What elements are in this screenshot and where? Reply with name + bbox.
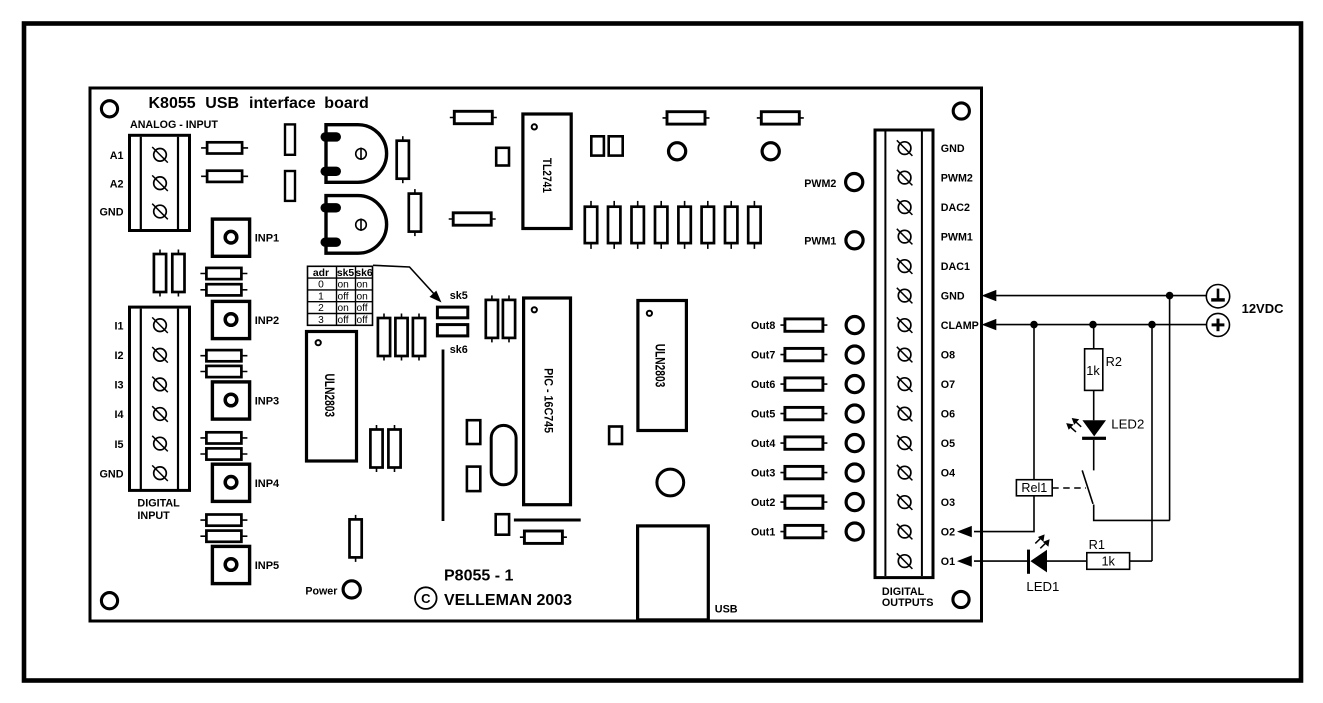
svg-text:O6: O6 xyxy=(941,409,955,421)
screw I1 (digital input) xyxy=(152,317,168,333)
resistor (input network 6) xyxy=(200,448,247,459)
wire LED1 to R1 xyxy=(1047,560,1087,562)
svg-text:1k: 1k xyxy=(1101,554,1115,569)
screw CLAMP (output terminal 7) xyxy=(897,317,913,333)
track line below PIC xyxy=(514,519,581,522)
driver IC ULN2803 (left) xyxy=(307,332,357,462)
capacitor pair right of TL2741 (2) xyxy=(609,136,623,155)
trimmer potentiometer RV1 xyxy=(321,125,387,183)
arrow into O1 terminal xyxy=(957,555,972,566)
LED via Out2 xyxy=(846,494,863,511)
relay contact blade xyxy=(1082,470,1093,504)
svg-text:Out8: Out8 xyxy=(751,320,775,332)
LED1 xyxy=(1027,550,1047,574)
svg-text:sk5: sk5 xyxy=(450,290,468,302)
svg-text:INPUT: INPUT xyxy=(137,510,170,522)
screw PWM2 (output terminal 2) xyxy=(897,170,913,186)
svg-text:Out2: Out2 xyxy=(751,497,775,509)
digital outputs terminal block SK3/SK4 xyxy=(875,130,933,578)
screw I3 (digital input) xyxy=(152,377,168,393)
svg-text:1: 1 xyxy=(318,291,324,302)
resistor (input network 7) xyxy=(200,515,247,526)
mounting hole bottom-right xyxy=(953,591,969,607)
svg-text:LED1: LED1 xyxy=(1026,579,1059,594)
pushbutton INP2 xyxy=(212,301,249,338)
svg-text:GND: GND xyxy=(941,291,965,303)
svg-text:O8: O8 xyxy=(941,350,955,362)
resistor (left of TL2741, bottom) xyxy=(449,213,496,225)
svg-text:O4: O4 xyxy=(941,468,955,480)
plus symbol (12VDC plus) xyxy=(1207,313,1230,336)
svg-text:O7: O7 xyxy=(941,379,955,391)
svg-text:VELLEMAN 2003: VELLEMAN 2003 xyxy=(444,592,572,609)
svg-text:ULN2803: ULN2803 xyxy=(653,344,668,388)
pushbutton INP4 xyxy=(212,464,249,501)
resistor array R8 xyxy=(748,201,760,249)
resistor Out3 xyxy=(780,466,827,478)
svg-text:sk6: sk6 xyxy=(355,268,373,279)
resistor pair below left ULN (2) xyxy=(388,425,400,472)
screw DAC1 (output terminal 5) xyxy=(897,258,913,274)
svg-text:GND: GND xyxy=(100,207,124,219)
resistor (input network 2) xyxy=(200,284,247,295)
svg-text:INP1: INP1 xyxy=(255,233,279,245)
svg-text:0: 0 xyxy=(318,280,324,291)
screw O6 (output terminal 10) xyxy=(897,406,913,422)
screw A2 xyxy=(152,175,168,191)
svg-text:C: C xyxy=(421,591,431,606)
jumper address table xyxy=(308,266,373,326)
resistor pair below analog block 1 xyxy=(154,250,166,297)
resistor Out4 xyxy=(780,437,827,449)
svg-text:3: 3 xyxy=(318,315,324,326)
svg-text:DIGITAL: DIGITAL xyxy=(137,498,180,510)
trimmer potentiometer RV2 xyxy=(321,196,387,254)
screw PWM1 (output terminal 4) xyxy=(897,229,913,245)
junction node R2 branch xyxy=(1089,321,1097,329)
svg-text:ANALOG - INPUT: ANALOG - INPUT xyxy=(130,119,218,131)
capacitor (small rect lower) xyxy=(285,171,295,201)
svg-text:DAC2: DAC2 xyxy=(941,202,970,214)
svg-text:LED2: LED2 xyxy=(1111,416,1144,431)
svg-text:sk6: sk6 xyxy=(450,344,468,356)
copyright symbol xyxy=(415,587,437,609)
svg-text:R2: R2 xyxy=(1106,354,1122,369)
svg-text:A2: A2 xyxy=(110,178,124,190)
LED via Out1 xyxy=(846,523,863,540)
svg-text:CLAMP: CLAMP xyxy=(941,320,979,332)
svg-text:on: on xyxy=(338,280,349,291)
LED via Out8 xyxy=(846,317,863,334)
USB connector xyxy=(638,526,709,620)
mounting hole top-right xyxy=(953,103,969,119)
driver IC ULN2803 (right) xyxy=(638,301,687,431)
svg-text:Out3: Out3 xyxy=(751,467,775,479)
svg-text:Out5: Out5 xyxy=(751,408,775,420)
screw DAC2 (output terminal 3) xyxy=(897,199,913,215)
arrow from table to sk5 xyxy=(373,265,442,302)
resistor array R4 xyxy=(655,201,667,249)
svg-text:Out4: Out4 xyxy=(751,438,775,450)
wire GND branch down xyxy=(1169,296,1171,521)
resistor (below PIC) xyxy=(520,531,567,543)
screw I5 (digital input) xyxy=(152,436,168,452)
capacitor (left of TL2741) xyxy=(496,148,509,166)
svg-text:TL2741: TL2741 xyxy=(540,158,553,193)
svg-text:PWM1: PWM1 xyxy=(941,232,973,244)
resistor pair below analog block 2 xyxy=(172,250,184,297)
resistor Out7 xyxy=(780,348,827,360)
svg-text:OUTPUTS: OUTPUTS xyxy=(882,597,934,609)
svg-text:A1: A1 xyxy=(110,150,124,162)
svg-text:USB: USB xyxy=(205,95,239,112)
svg-text:O1: O1 xyxy=(941,556,955,568)
wire CLAMP to supply plus xyxy=(995,324,1207,326)
junction node on GND wire xyxy=(1166,292,1174,300)
svg-text:Rel1: Rel1 xyxy=(1021,481,1047,495)
LED1 light arrows xyxy=(1035,534,1049,548)
wire plus to R2 xyxy=(1093,325,1095,349)
resistor Out6 xyxy=(780,378,827,390)
svg-text:DAC1: DAC1 xyxy=(941,261,970,273)
junction node R1 branch xyxy=(1148,321,1156,329)
resistor (input network 8) xyxy=(200,531,247,542)
crystal X1 xyxy=(491,425,516,484)
svg-text:off: off xyxy=(338,291,349,302)
resistor array R1 xyxy=(585,201,597,249)
svg-text:I2: I2 xyxy=(114,350,123,362)
junction node Rel1 branch xyxy=(1030,321,1038,329)
svg-text:on: on xyxy=(357,291,368,302)
svg-text:GND: GND xyxy=(100,468,124,480)
svg-text:Out7: Out7 xyxy=(751,349,775,361)
svg-text:INP3: INP3 xyxy=(255,396,279,408)
electrolytic capacitor xyxy=(657,469,684,496)
pushbutton INP5 xyxy=(212,546,249,583)
mounting hole top-left xyxy=(101,101,117,117)
resistor trio near ULN2803 (1) xyxy=(378,314,390,361)
LED2 xyxy=(1082,420,1106,440)
svg-text:O3: O3 xyxy=(941,497,955,509)
svg-text:interface: interface xyxy=(249,95,316,112)
resistor Out2 xyxy=(780,496,827,508)
screw O4 (output terminal 12) xyxy=(897,465,913,481)
svg-text:O2: O2 xyxy=(941,527,955,539)
arrow into GND terminal xyxy=(982,290,997,301)
PCB board outline xyxy=(90,88,982,621)
resistor trio near ULN2803 (3) xyxy=(413,314,425,361)
svg-text:PWM1: PWM1 xyxy=(804,235,836,247)
resistor R1 xyxy=(1087,553,1130,570)
mounting hole bottom-left xyxy=(101,593,117,609)
wire R1 to plus branch xyxy=(1130,560,1152,562)
LED via Out7 xyxy=(846,346,863,363)
resistor R2 xyxy=(1085,349,1103,391)
capacitor pair right of TL2741 (1) xyxy=(591,136,604,155)
wire plus branch down to R1 xyxy=(1151,325,1153,561)
svg-text:INP5: INP5 xyxy=(255,560,279,572)
resistor pair right of sk5 (1) xyxy=(486,295,498,342)
svg-text:O5: O5 xyxy=(941,438,955,450)
screw O2 (output terminal 14) xyxy=(897,524,913,540)
resistor (input network 1) xyxy=(200,268,247,279)
svg-text:K8055: K8055 xyxy=(149,95,196,112)
resistor (vertical, below left ULN) xyxy=(350,515,362,562)
analog input terminal block SK1 xyxy=(130,135,190,230)
wire contact to GND branch xyxy=(1094,505,1170,521)
svg-text:Out6: Out6 xyxy=(751,379,775,391)
svg-text:on: on xyxy=(338,303,349,314)
svg-text:sk5: sk5 xyxy=(337,268,355,279)
resistor Out1 xyxy=(780,525,827,537)
svg-text:off: off xyxy=(357,315,368,326)
svg-text:adr: adr xyxy=(313,268,329,279)
wire LED2 to contact xyxy=(1093,440,1095,471)
svg-text:PWM2: PWM2 xyxy=(941,173,973,185)
resistor pair right of sk5 (2) xyxy=(503,295,515,342)
svg-text:R1: R1 xyxy=(1089,537,1105,552)
jumper sk6 xyxy=(437,325,467,336)
svg-text:INP2: INP2 xyxy=(255,315,279,327)
svg-text:I4: I4 xyxy=(114,409,123,421)
track line below sk6 xyxy=(442,350,445,522)
svg-text:I1: I1 xyxy=(114,320,123,332)
resistor (vertical, right of RV2) xyxy=(409,189,421,236)
resistor (input network 5) xyxy=(200,432,247,443)
svg-text:PIC - 16C745: PIC - 16C745 xyxy=(541,368,554,434)
svg-text:1k: 1k xyxy=(1086,363,1100,378)
resistor (vertical, right of RV1) xyxy=(397,136,409,183)
screw O1 (output terminal 15) xyxy=(897,553,913,569)
resistor array R2 xyxy=(608,201,620,249)
svg-text:I5: I5 xyxy=(114,439,123,451)
pushbutton INP1 xyxy=(212,219,249,256)
jumper sk5 xyxy=(437,307,467,318)
resistor (A1 input) xyxy=(201,142,248,153)
svg-text:12VDC: 12VDC xyxy=(1242,301,1285,316)
screw GND (output terminal 1) xyxy=(897,140,913,156)
via PWM2 xyxy=(846,174,863,191)
microcontroller IC PIC - 16C745 xyxy=(524,298,571,505)
svg-text:USB: USB xyxy=(715,603,738,615)
svg-text:GND: GND xyxy=(941,143,965,155)
LED via Out3 xyxy=(846,464,863,481)
board title xyxy=(149,95,369,112)
LED2 light arrows xyxy=(1066,418,1081,432)
resistor (top right) xyxy=(757,112,804,124)
wire plus to Rel1 xyxy=(1033,325,1035,480)
resistor (A2 input) xyxy=(201,171,248,182)
resistor array R5 xyxy=(678,201,690,249)
capacitor left of crystal (top) xyxy=(467,420,480,444)
screw GND (digital input) xyxy=(152,465,168,481)
svg-text:off: off xyxy=(357,303,368,314)
screw O8 (output terminal 8) xyxy=(897,347,913,363)
wire GND to supply xyxy=(995,295,1206,297)
svg-text:board: board xyxy=(324,95,368,112)
dashed link Rel1 to contact xyxy=(1052,487,1086,489)
screw A1 xyxy=(152,147,168,163)
wire O1 to LED1 xyxy=(974,560,1027,562)
svg-text:P8055 - 1: P8055 - 1 xyxy=(444,568,513,585)
svg-text:Out1: Out1 xyxy=(751,526,775,538)
pushbutton INP3 xyxy=(212,382,249,419)
screw O5 (output terminal 11) xyxy=(897,435,913,451)
op-amp IC TL2741 xyxy=(523,114,571,229)
wire Rel1 to O2 xyxy=(974,496,1034,532)
resistor array R6 xyxy=(702,201,714,249)
screw O3 (output terminal 13) xyxy=(897,494,913,510)
resistor (top middle) xyxy=(663,112,710,124)
svg-text:INP4: INP4 xyxy=(255,478,280,490)
via (below top right resistor) xyxy=(762,143,779,160)
digital input terminal block SK2 xyxy=(130,307,190,490)
svg-text:Power: Power xyxy=(305,586,337,598)
svg-text:ULN2803: ULN2803 xyxy=(322,374,337,418)
capacitor below PIC xyxy=(496,514,509,535)
resistor (left of TL2741, top) xyxy=(450,111,497,123)
label DIGITAL OUTPUTS xyxy=(882,586,934,609)
LED via Out4 xyxy=(846,435,863,452)
screw analog GND xyxy=(152,204,168,220)
resistor (input network 4) xyxy=(200,366,247,377)
resistor Out5 xyxy=(780,407,827,419)
wire R2 to LED2 xyxy=(1093,390,1095,420)
power LED xyxy=(343,581,360,598)
resistor Out8 xyxy=(780,319,827,331)
screw O7 (output terminal 9) xyxy=(897,376,913,392)
svg-text:off: off xyxy=(338,315,349,326)
via PWM1 xyxy=(846,232,863,249)
ground symbol (12VDC minus) xyxy=(1206,285,1229,308)
LED via Out6 xyxy=(846,376,863,393)
screw I4 (digital input) xyxy=(152,406,168,422)
arrow into O2 terminal xyxy=(957,526,972,537)
label DIGITAL INPUT xyxy=(137,498,180,522)
resistor trio near ULN2803 (2) xyxy=(395,314,407,361)
capacitor left of crystal (bottom) xyxy=(467,467,480,492)
resistor array R7 xyxy=(725,201,737,249)
capacitor right of PIC xyxy=(609,427,622,445)
via (below top middle resistor) xyxy=(669,143,686,160)
svg-text:2: 2 xyxy=(318,303,324,314)
svg-text:PWM2: PWM2 xyxy=(804,178,836,190)
LED via Out5 xyxy=(846,405,863,422)
resistor (input network 3) xyxy=(200,350,247,361)
resistor array R3 xyxy=(632,201,644,249)
relay coil Rel1 xyxy=(1016,480,1052,496)
capacitor (small rect upper) xyxy=(285,124,295,154)
svg-text:DIGITAL: DIGITAL xyxy=(882,586,925,598)
arrow into CLAMP terminal xyxy=(982,319,997,330)
svg-text:I3: I3 xyxy=(114,380,123,392)
screw GND (output terminal 6) xyxy=(897,288,913,304)
resistor pair below left ULN (1) xyxy=(370,425,382,472)
svg-text:on: on xyxy=(357,280,368,291)
screw I2 (digital input) xyxy=(152,347,168,363)
